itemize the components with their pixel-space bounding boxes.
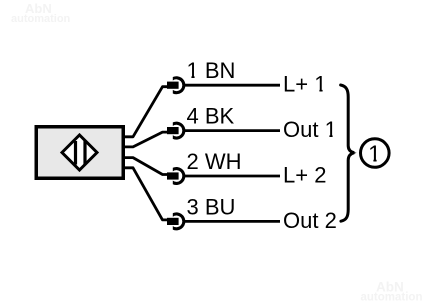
brace spike tip: [350, 151, 356, 155]
wire BK from sensor to plug 4: [125, 132, 168, 147]
wire terminal 4 to Out 1: [185, 129, 281, 132]
watermark top-left: [11, 1, 71, 25]
svg-text:4 BK: 4 BK: [187, 104, 235, 129]
connector pin 4 socket: [173, 122, 186, 140]
brace grouping all four terminals: [341, 85, 355, 221]
svg-text:2 WH: 2 WH: [187, 149, 242, 174]
wire BN from sensor to plug 1: [125, 87, 168, 137]
connector pin 3 socket: [173, 212, 186, 230]
wire terminal 3 to Out 2: [185, 220, 281, 223]
wire terminal 2 to L+ 2: [185, 175, 281, 178]
svg-text:1 BN: 1 BN: [187, 58, 236, 83]
connector pin 2 plug: [167, 172, 179, 179]
connector pin 4 plug: [167, 127, 179, 134]
watermark bottom-right: [361, 280, 423, 304]
svg-text:Out 2: Out 2: [283, 208, 337, 233]
wire terminal 1 to L+ 1: [185, 84, 281, 87]
svg-text:1: 1: [368, 141, 381, 167]
wire BU from sensor to plug 3: [125, 168, 168, 220]
wire WH from sensor to plug 2: [125, 158, 168, 175]
svg-text:automation: automation: [11, 13, 71, 25]
note circle 1: [361, 139, 390, 168]
mask: remove foot serif of digit 1 in "1 BN": [187, 75, 191, 78]
svg-text:Out 1: Out 1: [283, 117, 337, 142]
svg-text:L+ 1: L+ 1: [283, 72, 326, 97]
mask: remove foot serif of digit 1 in "L+ 1": [315, 89, 319, 92]
connector pin 1 socket: [173, 76, 186, 94]
mask: remove foot serif of digit 1 in "Out 1": [325, 134, 329, 137]
connector pin 3 plug: [167, 218, 179, 225]
svg-text:3 BU: 3 BU: [187, 194, 236, 219]
sensor body: [36, 127, 123, 179]
svg-text:automation: automation: [361, 292, 423, 304]
svg-text:L+ 2: L+ 2: [283, 163, 326, 188]
diamond inner bar left: [74, 141, 77, 165]
proximity sensor diamond symbol: [62, 135, 97, 170]
diamond inner bar right: [83, 141, 86, 165]
connector pin 1 plug: [167, 82, 179, 89]
mask: remove foot serif of digit 1 in note circle: [369, 159, 373, 162]
connector pin 2 socket: [173, 167, 186, 185]
